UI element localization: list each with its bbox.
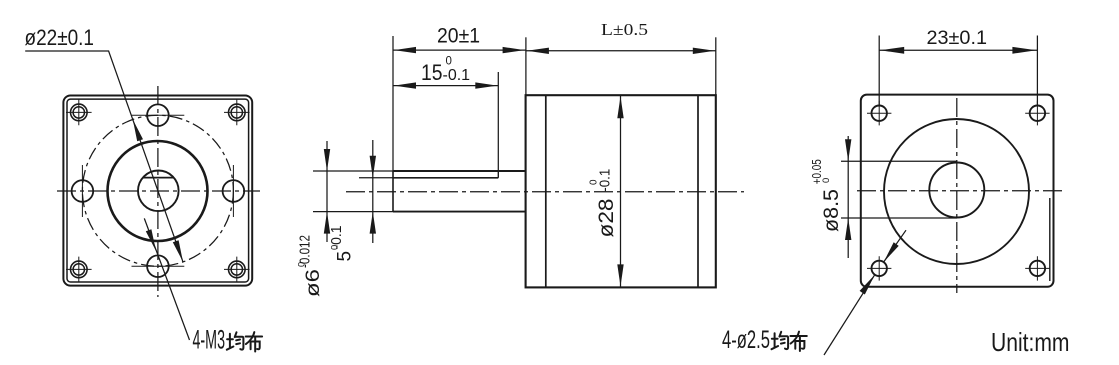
corner screw hole bottom-left (inner) xyxy=(73,264,84,275)
svg-text:-0.1: -0.1 xyxy=(443,67,471,84)
hole top-left ticks xyxy=(867,101,891,125)
svg-text:4-ø2.5: 4-ø2.5 xyxy=(722,326,770,354)
arrow L right xyxy=(693,48,715,54)
extension line ø8.5 top xyxy=(841,160,957,162)
label ø6 0/-0.012 (rotated) xyxy=(297,235,325,297)
arrow ø28 bottom xyxy=(617,264,623,286)
corner screw hole top-right (outer) xyxy=(229,104,246,121)
bolt circle ø22 (dash-dot) xyxy=(82,115,233,266)
leader line 4-ø2.5 upper segment xyxy=(884,230,906,262)
through hole bottom-right xyxy=(1030,261,1045,276)
arrow 20 right xyxy=(503,47,525,53)
svg-text:L±0.5: L±0.5 xyxy=(601,20,648,39)
shaft top line + ø6 extension xyxy=(313,170,393,172)
arrow L left xyxy=(527,48,549,54)
dimension line ø6 (vertical) xyxy=(326,141,328,242)
extension line at flat end (for 15 dim) xyxy=(497,72,499,170)
corner hole top-left ticks xyxy=(66,100,92,126)
through hole bottom-left xyxy=(872,261,887,276)
svg-text:20±1: 20±1 xyxy=(437,25,480,48)
leader line for ø22 dimension xyxy=(25,51,183,262)
corner hole top-right ticks xyxy=(224,100,250,126)
vertical centerline xyxy=(956,98,958,293)
svg-text:-0.1: -0.1 xyxy=(596,169,613,192)
label 均 (jun) xyxy=(227,332,244,349)
arrow 23 left xyxy=(880,47,904,54)
through hole top-left xyxy=(872,106,887,121)
corner screw hole top-right (inner) xyxy=(231,107,242,118)
ø2.5 arrow upper xyxy=(884,242,899,262)
motor body outline (rear square) xyxy=(861,95,1054,287)
extension line body rear (for L dim) xyxy=(715,37,717,95)
M3 hole left xyxy=(72,180,94,202)
dimension line ø28 (vertical, inside body) xyxy=(620,95,622,287)
rear end-cap line xyxy=(697,95,699,287)
label ø8.5 +0.05/0 (rotated) xyxy=(810,159,843,232)
arrow 5 upper xyxy=(370,156,376,178)
arrow ø6 lower xyxy=(324,212,330,234)
M3 hole bottom horizontal tick xyxy=(132,265,185,267)
motor body chamfer line (inner square) xyxy=(67,99,249,282)
motor body outline (outer square, front view) xyxy=(63,96,252,286)
leader line 4-ø2.5 lower segment xyxy=(824,275,875,355)
dimension line 15-0.1 xyxy=(393,85,498,87)
svg-text:Unit:mm: Unit:mm xyxy=(991,327,1070,357)
dimension line 5-0.1 (vertical) xyxy=(372,140,374,243)
svg-text:-0.012: -0.012 xyxy=(297,235,314,268)
arrow ø6 upper xyxy=(324,149,330,171)
corner screw hole bottom-left (outer) xyxy=(71,261,88,278)
dimension line 20±1 xyxy=(393,49,526,51)
label 5 0/-0.1 (rotated) xyxy=(328,226,355,262)
horizontal centerline (shaft axis) xyxy=(346,191,744,193)
svg-text:ø8.5: ø8.5 xyxy=(819,189,843,232)
M3 hole top horizontal tick xyxy=(132,114,185,116)
extension line body front (for 20 / L dims) xyxy=(525,37,527,95)
label 均 (jun) xyxy=(772,332,789,349)
pilot boss circle (thick) xyxy=(108,141,208,241)
arrow ø8.5 upper xyxy=(845,139,851,161)
rear bell circle xyxy=(884,119,1029,264)
corner screw hole bottom-right (inner) xyxy=(231,264,242,275)
ø2.5 arrow lower xyxy=(860,275,875,295)
svg-text:0: 0 xyxy=(821,178,832,183)
extension line 23 right xyxy=(1036,36,1038,106)
horizontal centerline xyxy=(57,190,260,192)
svg-text:-0.1: -0.1 xyxy=(328,226,345,250)
svg-text:5: 5 xyxy=(335,251,356,262)
dimension line 23±0.1 xyxy=(879,49,1037,51)
M3 hole right xyxy=(223,180,245,202)
leader line for 4-M3 xyxy=(144,218,189,340)
flat run-out step xyxy=(497,170,499,178)
extension line ø8.5 bottom xyxy=(841,217,957,219)
svg-text:ø22±0.1: ø22±0.1 xyxy=(25,25,95,50)
shaft circle ø6 xyxy=(138,171,179,212)
hole bottom-left ticks xyxy=(867,256,891,280)
shaft flat line + extension xyxy=(359,177,393,179)
svg-text:ø28: ø28 xyxy=(595,199,618,238)
hole bottom-right ticks xyxy=(1025,256,1049,280)
through hole top-right xyxy=(1030,106,1045,121)
4-M3 leader arrow xyxy=(146,229,156,251)
arrow 15 right xyxy=(475,82,497,88)
label 布 (bu) xyxy=(790,332,806,351)
svg-text:15: 15 xyxy=(421,60,443,85)
bearing boss circle ø8.5 xyxy=(929,163,984,218)
corner hole bottom-left ticks xyxy=(66,257,92,283)
arrow 20 left xyxy=(394,47,416,53)
label ø28 0/-0.1 (rotated) xyxy=(589,169,618,238)
svg-text:23±0.1: 23±0.1 xyxy=(927,27,988,49)
M3 hole right vertical tick xyxy=(232,165,234,217)
extension line at shaft tip (for 20 / 15 dims) xyxy=(392,36,394,171)
arrow ø28 top xyxy=(617,96,623,118)
corner screw hole bottom-right (outer) xyxy=(229,261,246,278)
dimension line ø8.5 (vertical) xyxy=(847,136,849,258)
corner hole bottom-right ticks xyxy=(224,257,250,283)
shaft end face xyxy=(392,171,394,212)
horizontal centerline xyxy=(857,190,1063,192)
M3 hole left vertical tick xyxy=(81,165,83,217)
arrow 15 left xyxy=(394,82,416,88)
svg-text:ø6: ø6 xyxy=(303,269,324,297)
M3 hole top xyxy=(147,104,169,126)
corner screw hole top-left (outer) xyxy=(71,104,88,121)
corner screw hole top-left (inner) xyxy=(73,107,84,118)
svg-text:4-M3: 4-M3 xyxy=(193,325,226,355)
motor body rectangle xyxy=(526,95,716,287)
ø22 arrow upper xyxy=(133,120,143,142)
extension line 23 left xyxy=(878,36,880,106)
label 布 (bu) xyxy=(246,332,262,351)
M3 hole bottom xyxy=(147,255,169,277)
hole top-right ticks xyxy=(1025,101,1049,125)
svg-text:0: 0 xyxy=(446,56,452,68)
arrow 5 lower xyxy=(370,212,376,234)
shaft bottom line + extension xyxy=(313,211,393,213)
dimension line L±0.5 xyxy=(526,50,716,52)
partial line near right edge xyxy=(1049,198,1051,281)
arrow 23 right xyxy=(1012,47,1036,54)
front end-cap line xyxy=(545,95,547,287)
shaft flat chord xyxy=(143,177,174,179)
arrow ø8.5 lower xyxy=(845,218,851,240)
ø22 arrow lower xyxy=(173,240,183,262)
vertical centerline xyxy=(157,86,159,297)
